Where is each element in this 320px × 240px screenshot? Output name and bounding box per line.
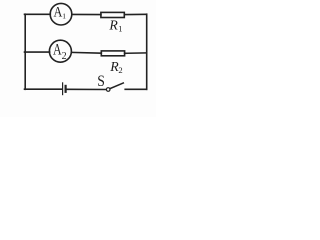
svg-text:R: R — [108, 18, 118, 33]
svg-text:2: 2 — [62, 51, 67, 62]
wire: switch to right rail — [125, 88, 147, 90]
svg-text:S: S — [97, 73, 105, 90]
ammeter A2 — [49, 40, 71, 62]
label A2 inside ammeter — [53, 42, 67, 62]
wire: top branch, R1 to right rail — [124, 13, 146, 15]
wire: middle branch, rail to ammeter A2 — [25, 51, 50, 53]
wire: right rail — [146, 14, 148, 89]
svg-text:1: 1 — [62, 11, 66, 20]
wire: top branch, rail to ammeter A1 — [25, 13, 51, 15]
svg-text:1: 1 — [118, 24, 122, 34]
svg-text:A: A — [54, 3, 63, 20]
switch S pivot contact — [106, 88, 110, 92]
battery short thick plate (-) — [64, 86, 66, 92]
wire: middle branch, A2 to R2 — [71, 51, 101, 54]
label R2 below resistor R2 — [109, 59, 122, 75]
wire: top branch, A1 to R1 — [72, 13, 101, 15]
resistor R1 — [101, 12, 124, 17]
svg-text:A: A — [53, 42, 62, 59]
wire: bottom, left rail to battery — [25, 88, 62, 90]
wire: middle branch, R2 to right rail — [125, 52, 147, 54]
ammeter A1 — [50, 3, 72, 25]
wire: battery to switch pivot — [67, 88, 107, 90]
label A1 inside ammeter — [54, 3, 67, 20]
label R1 below resistor R1 — [108, 18, 122, 34]
switch S lever (open) — [110, 83, 123, 89]
wire: left rail — [24, 14, 26, 89]
resistor R2 — [101, 51, 124, 56]
battery long plate (+) — [62, 83, 64, 95]
svg-text:2: 2 — [118, 65, 122, 75]
